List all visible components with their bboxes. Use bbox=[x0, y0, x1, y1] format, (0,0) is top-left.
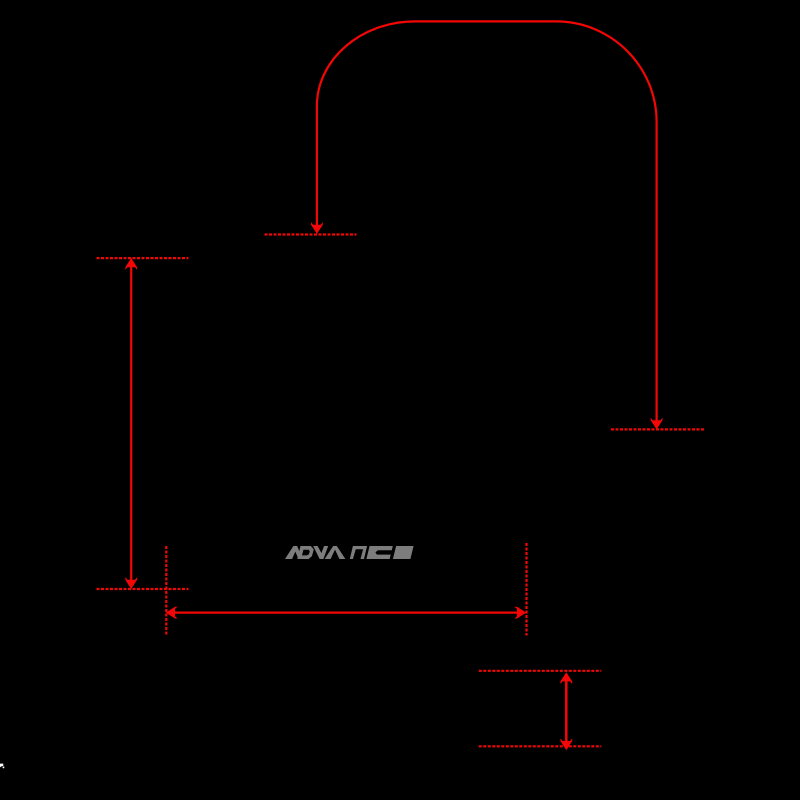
arrowhead: small dim bottom, pointing down bbox=[560, 738, 572, 750]
dotted extension line at width right bbox=[525, 543, 527, 636]
letter E bbox=[393, 546, 414, 559]
letter A bbox=[325, 546, 346, 559]
dotted extension line at height bottom bbox=[97, 588, 189, 590]
top leader arc (rounded path from left arrow up over to right arrow) bbox=[317, 21, 657, 424]
letter V bbox=[313, 546, 328, 559]
letter N bbox=[350, 546, 367, 559]
bottom-right small height dimension line bbox=[565, 674, 568, 747]
letter D bbox=[297, 546, 314, 559]
dotted extension line at small dim bottom bbox=[479, 745, 602, 747]
arrowhead: width left, pointing left bbox=[166, 607, 178, 619]
arrowhead: arc right end, pointing down bbox=[651, 418, 663, 430]
arrowhead: height bottom, pointing down bbox=[125, 577, 137, 589]
dotted extension line at small dim top bbox=[479, 670, 602, 672]
dotted extension line at width left bbox=[165, 546, 167, 635]
dotted reference line under arc right arrow bbox=[611, 428, 705, 430]
dotted reference line under arc left arrow bbox=[265, 233, 357, 235]
arrowhead: height top, pointing up bbox=[125, 258, 137, 270]
arrowhead: width right, pointing right bbox=[514, 607, 526, 619]
bottom width dimension line bbox=[169, 611, 524, 613]
arrowhead: small dim top, pointing up bbox=[560, 672, 572, 684]
letter A bbox=[285, 546, 302, 559]
left height dimension line bbox=[130, 261, 132, 586]
dotted extension line at height top bbox=[97, 257, 189, 259]
letter C bbox=[366, 546, 392, 559]
arrowhead: arc left end, pointing down bbox=[311, 222, 323, 234]
white mouse cursor fragment at left edge bbox=[0, 764, 3, 768]
ADVANCE logo text bbox=[285, 546, 414, 559]
